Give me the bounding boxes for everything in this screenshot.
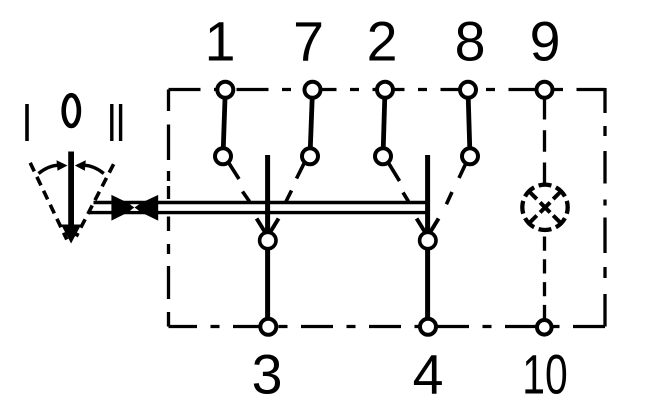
contact ball pin 3 <box>260 232 276 248</box>
svg-text:1: 1 <box>205 11 236 73</box>
dashed contact path pin 2 <box>389 163 409 202</box>
movable contact post pin 3 <box>265 155 270 234</box>
terminal circle pin 9 <box>537 82 553 98</box>
dashed contact path pin 8 <box>446 164 465 205</box>
lamp L1 centre cross <box>540 202 550 212</box>
fixed contact circle pin 1 <box>215 148 231 164</box>
coupling bowtie white notch <box>130 204 139 210</box>
svg-text:7: 7 <box>293 11 324 73</box>
terminal circle pin 1 <box>217 82 233 98</box>
lamp L1 cross spokes <box>530 193 560 223</box>
position label I <box>25 104 29 141</box>
terminal circle pin 10 <box>537 320 552 335</box>
curved arrow left <box>39 165 59 173</box>
lever arrowhead <box>61 225 81 244</box>
terminal circle pin 8 <box>460 82 476 98</box>
lever shaft arrow <box>68 152 74 227</box>
dashed contact path pin 1 <box>229 163 250 202</box>
enclosure dash-dot border top <box>169 88 606 91</box>
actuator bar lower line <box>89 211 428 214</box>
enclosure dash-dot border right side segments <box>603 88 606 327</box>
stem to terminal 3 <box>265 248 270 327</box>
stem to terminal 4 <box>425 248 430 327</box>
terminal circle pin 7 <box>305 82 321 98</box>
svg-text:9: 9 <box>530 11 561 73</box>
contact fork pin 3 <box>257 219 279 232</box>
svg-text:8: 8 <box>455 11 486 73</box>
position label II <box>110 104 113 141</box>
position label 0 <box>64 95 79 126</box>
lamp L1 dashed circle <box>522 185 567 230</box>
lever travel fan right dashed line <box>76 164 113 236</box>
fixed contact circle pin 8 <box>462 148 478 164</box>
lever travel fan left dashed line <box>30 163 67 240</box>
terminal circle pin 2 <box>377 82 393 98</box>
curved arrow right <box>84 165 104 173</box>
svg-text:4: 4 <box>413 344 444 406</box>
contact fork pin 4 <box>417 219 439 232</box>
coupling bowtie right triangle <box>131 195 158 221</box>
contact link pin 8 <box>468 90 470 156</box>
terminal circle pin 4 <box>420 319 436 335</box>
svg-text:10: 10 <box>522 344 568 406</box>
fixed contact circle pin 2 <box>375 148 391 164</box>
contact ball pin 4 <box>420 232 436 248</box>
terminal circle pin 3 <box>260 319 276 335</box>
dashed lamp feed from pin 9 <box>543 98 546 184</box>
svg-text:2: 2 <box>367 11 398 73</box>
fixed contact circle pin 7 <box>302 148 318 164</box>
coupling bowtie left triangle <box>111 195 137 221</box>
actuator bar upper line <box>94 201 428 204</box>
movable contact post pin 4 <box>425 155 430 234</box>
svg-text:3: 3 <box>252 344 283 406</box>
dashed contact path pin 7 <box>286 163 305 202</box>
enclosure dash-dot border left side segments <box>167 90 170 327</box>
contact link pin 1 <box>223 90 225 156</box>
enclosure dash-dot border bottom <box>169 325 606 328</box>
contact link pin 2 <box>383 90 385 156</box>
contact link pin 7 <box>310 90 313 156</box>
dashed lamp feed to pin 10 <box>543 237 546 320</box>
